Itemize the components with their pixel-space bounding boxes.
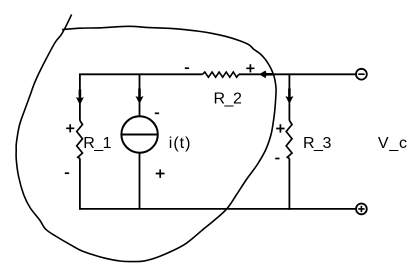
svg-text:i(t): i(t) <box>169 135 192 152</box>
current arrow on R_3 branch <box>286 89 293 104</box>
svg-text:R_2: R_2 <box>214 90 242 107</box>
wire: left branch bottom stub (R_1 to bottom rail) <box>79 158 81 209</box>
svg-text:R_3: R_3 <box>303 135 331 152</box>
svg-text:V_c: V_c <box>378 135 408 152</box>
wire: current source branch bottom stub <box>139 153 141 209</box>
wire: left branch top stub (to R_1) <box>79 73 81 120</box>
resistor R1 (zigzag) <box>77 121 83 159</box>
resistor R3 (zigzag) <box>286 121 292 159</box>
polarity + (i(t) bottom) <box>156 169 165 178</box>
wire: R_3 branch bottom stub (R_3 to bottom rail) <box>288 158 290 209</box>
wire: current source branch top stub <box>139 74 141 116</box>
polarity + (R_1 top) <box>66 124 74 132</box>
svg-text:R_1: R_1 <box>83 135 111 152</box>
polarity - (R_2 left) <box>185 67 189 69</box>
wire: R_3 branch top stub <box>288 74 290 120</box>
current arrow on i(t) branch <box>136 89 143 104</box>
polarity + (R_2 right) <box>246 64 254 72</box>
polarity - (R_1 bottom) <box>65 172 69 174</box>
terminal (minus) top right <box>356 69 367 80</box>
polarity - (R_3 bottom) <box>275 158 279 160</box>
wire: top rail right segment (R_2 to top terminal) <box>239 73 356 75</box>
current arrow on R_1 branch <box>77 90 84 105</box>
terminal (plus) bottom right <box>356 204 367 215</box>
current source i(t) (circle with bar) <box>121 116 157 152</box>
current arrow on top rail (pointing left into node) <box>260 71 274 78</box>
wire: bottom rail <box>80 208 356 210</box>
wire: top rail left segment (corner to R_2) <box>80 73 203 75</box>
resistor R2 (horizontal zigzag) <box>203 72 239 77</box>
freehand KVL loop (hand-drawn closed curve) <box>16 15 276 262</box>
polarity + (R_3 top) <box>276 124 284 132</box>
polarity - (i(t) top) <box>155 112 159 114</box>
